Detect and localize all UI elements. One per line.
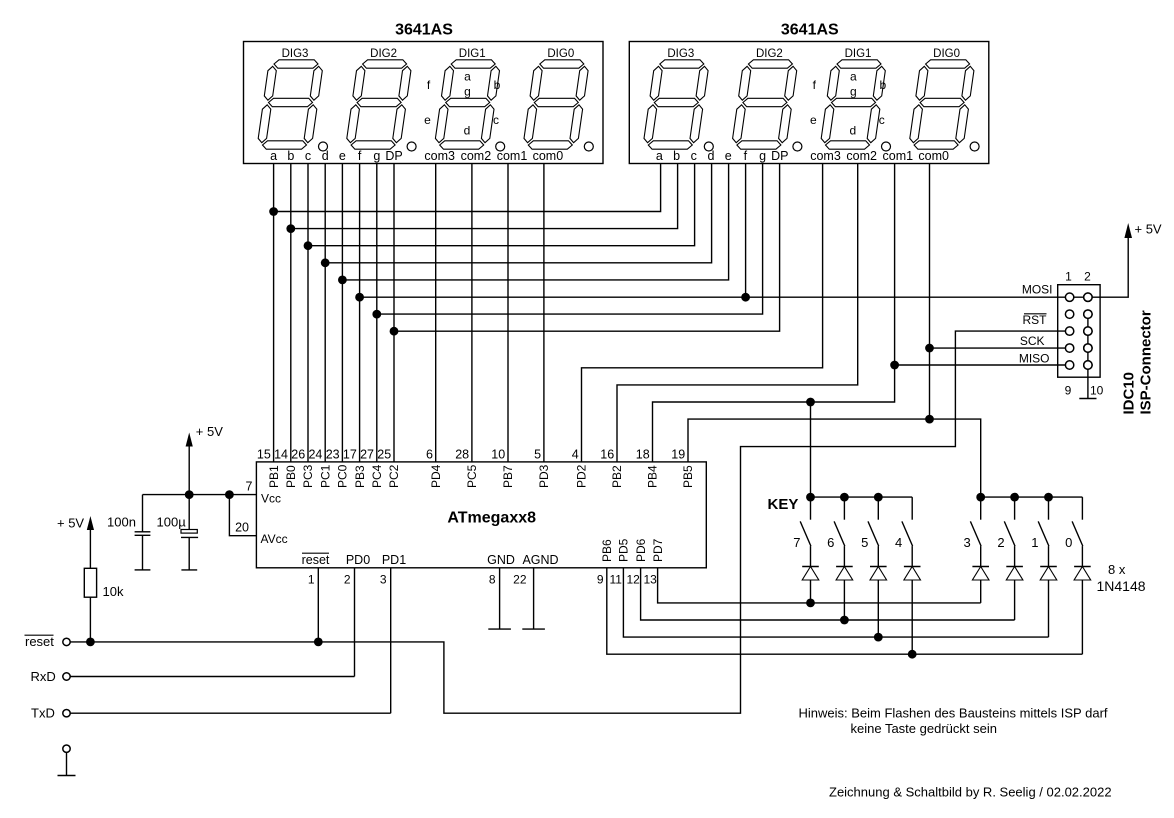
svg-text:3641AS: 3641AS bbox=[395, 22, 453, 39]
svg-text:8: 8 bbox=[489, 573, 496, 587]
ATmegaxx8 bottom port labels PB6 PD5 PD6 PD7 (rotated) bbox=[600, 538, 665, 562]
svg-text:100µ: 100µ bbox=[157, 515, 187, 530]
wire display1 com2 to ATmegaxx8 top pin bbox=[471, 164, 473, 462]
svg-text:20: 20 bbox=[235, 520, 249, 534]
wire ATmegaxx8 pin 2 (PD0) down to RxD line bbox=[354, 568, 356, 677]
svg-text:7: 7 bbox=[246, 479, 253, 493]
junction reset / 10k resistor bbox=[86, 638, 95, 647]
svg-text:3: 3 bbox=[963, 535, 970, 550]
switch key 3 bbox=[970, 497, 981, 566]
svg-text:Zeichnung & Schaltbild by R. S: Zeichnung & Schaltbild by R. Seelig / 02… bbox=[829, 785, 1112, 800]
svg-text:DIG1: DIG1 bbox=[845, 48, 872, 60]
wire PD7 (pin 13) to keys 7 and 3 bbox=[658, 568, 981, 603]
wire terminal ground bbox=[66, 752, 68, 775]
svg-text:3: 3 bbox=[380, 573, 387, 587]
svg-text:PC0: PC0 bbox=[336, 464, 350, 488]
svg-text:reset: reset bbox=[302, 553, 330, 567]
svg-text:TxD: TxD bbox=[31, 706, 55, 721]
svg-text:10k: 10k bbox=[103, 584, 124, 599]
ATmegaxx8 pin numbers 8 22 bbox=[489, 573, 527, 587]
wire display1 com0 to ATmegaxx8 top pin bbox=[543, 164, 545, 462]
wire segment bus e (display1 e to display2 e) bbox=[342, 164, 728, 280]
svg-text:g: g bbox=[759, 149, 766, 163]
wire segment bus a (display1 a to display2 a) bbox=[274, 164, 661, 212]
svg-text:DIG0: DIG0 bbox=[933, 48, 960, 60]
display U2 (left) digit DIG1 bbox=[435, 60, 499, 149]
wire display2 pin f stub bbox=[745, 164, 747, 298]
svg-text:0: 0 bbox=[1065, 535, 1072, 550]
display U2 (left) common pin labels com3 com2 com1 com0 bbox=[424, 149, 563, 163]
ground symbol at terminal bbox=[58, 775, 76, 777]
svg-text:f: f bbox=[744, 149, 748, 163]
diode D2 1N4148 bbox=[1006, 567, 1023, 621]
svg-text:com1: com1 bbox=[497, 149, 528, 163]
wire display2 com3 to ATmegaxx8 pin 4 (PD2) bbox=[582, 164, 823, 462]
wire display1 pin c to ATmegaxx8 top pin bbox=[307, 164, 309, 462]
svg-text:2: 2 bbox=[344, 573, 351, 587]
capacitor C2 100u (polarized) bbox=[188, 495, 190, 530]
svg-text:e: e bbox=[810, 113, 817, 127]
svg-text:PD7: PD7 bbox=[651, 538, 665, 562]
svg-text:c: c bbox=[305, 149, 311, 163]
svg-text:d: d bbox=[464, 124, 471, 138]
display U3 (right) digit DIG2 bbox=[733, 60, 797, 149]
ATmegaxx8 bottom pin numbers 1 2 3 bbox=[308, 573, 387, 587]
wire key rail 1 (keys 7-4) bbox=[811, 496, 913, 498]
svg-text:d: d bbox=[708, 149, 715, 163]
terminal reset circle bbox=[63, 638, 70, 645]
wire TxD to pin 3 bbox=[70, 712, 391, 714]
wire SCK (ISP pin 7 row) to display2 com0 bbox=[930, 347, 1070, 349]
svg-text:PC1: PC1 bbox=[318, 464, 332, 488]
svg-text:17: 17 bbox=[343, 447, 357, 461]
display U2 (left) DIG3 decimal point bbox=[319, 142, 328, 151]
svg-text:g: g bbox=[850, 85, 857, 99]
svg-text:DIG3: DIG3 bbox=[282, 48, 309, 60]
svg-text:GND: GND bbox=[487, 553, 515, 567]
connector J1 IDC10 box bbox=[1058, 285, 1100, 378]
display U3 (right) segment letters on DIG1 bbox=[810, 70, 887, 138]
svg-text:Hinweis: Beim Flashen des Baus: Hinweis: Beim Flashen des Bausteins mitt… bbox=[799, 706, 1108, 721]
svg-text:AVcc: AVcc bbox=[261, 532, 288, 546]
svg-text:24: 24 bbox=[308, 447, 322, 461]
svg-text:28: 28 bbox=[455, 447, 469, 461]
svg-text:ATmegaxx8: ATmegaxx8 bbox=[447, 509, 536, 526]
ISP pin circles bbox=[1065, 293, 1092, 369]
svg-text:DIG2: DIG2 bbox=[370, 48, 397, 60]
wire segment bus d (display1 d to display2 d) bbox=[325, 164, 711, 263]
svg-text:4: 4 bbox=[895, 535, 902, 550]
svg-text:PD1: PD1 bbox=[382, 553, 406, 567]
svg-text:g: g bbox=[464, 85, 471, 99]
svg-text:a: a bbox=[850, 70, 857, 84]
wire display1 pin g to ATmegaxx8 top pin bbox=[376, 164, 378, 462]
terminal TxD circle bbox=[63, 710, 70, 717]
junction com0 / SCK bbox=[925, 344, 934, 353]
display U3 (right) DIG2 decimal point bbox=[793, 142, 802, 151]
svg-text:2: 2 bbox=[1084, 270, 1091, 284]
svg-text:RST: RST bbox=[1023, 313, 1048, 327]
wire display1 pin DP to ATmegaxx8 top pin bbox=[393, 164, 395, 462]
wire AGND pin 22 to ground bbox=[533, 568, 535, 629]
svg-text:reset: reset bbox=[25, 634, 54, 649]
svg-text:25: 25 bbox=[377, 447, 391, 461]
wire key rail 1 feed (com1 net down to KEY rail) bbox=[810, 402, 812, 497]
svg-text:PD6: PD6 bbox=[634, 538, 648, 562]
svg-text:7: 7 bbox=[793, 535, 800, 550]
display U2 (left) DIG2 decimal point bbox=[407, 142, 416, 151]
wire display1 pin a to ATmegaxx8 top pin bbox=[273, 164, 275, 462]
junction reset / ATmegaxx8 pin 1 bbox=[314, 638, 323, 647]
display U3 (right) common pin labels com3 com2 com1 com0 bbox=[810, 149, 949, 163]
junction com1 / key rail 1 feed bbox=[806, 398, 815, 407]
svg-text:MISO: MISO bbox=[1019, 352, 1050, 366]
display U3 (right) DIG3 decimal point bbox=[704, 142, 713, 151]
+5V supply arrow at ISP bbox=[1124, 223, 1132, 238]
svg-text:f: f bbox=[358, 149, 362, 163]
svg-text:c: c bbox=[879, 113, 885, 127]
svg-text:23: 23 bbox=[326, 447, 340, 461]
wire display1 com3 to ATmegaxx8 top pin bbox=[435, 164, 437, 462]
diode D1 1N4148 bbox=[1040, 567, 1057, 638]
svg-text:DIG2: DIG2 bbox=[756, 48, 783, 60]
display U2 (left) segment pin labels a b c d e f g DP bbox=[270, 149, 403, 163]
svg-text:e: e bbox=[725, 149, 732, 163]
wire display2 com1 to ATmegaxx8 pin 18 (PB4) / MISO net bbox=[653, 164, 895, 462]
svg-text:PC2: PC2 bbox=[387, 464, 401, 488]
switch key 4 bbox=[902, 497, 913, 566]
switch key 6 bbox=[834, 497, 845, 566]
svg-text:DP: DP bbox=[385, 149, 402, 163]
svg-text:PB1: PB1 bbox=[267, 465, 281, 488]
junctions key rail 1 bbox=[806, 493, 883, 502]
wire PD6 (pin 12) to keys 6 and 2 bbox=[641, 568, 1015, 620]
svg-text:d: d bbox=[849, 124, 856, 138]
svg-text:27: 27 bbox=[360, 447, 374, 461]
svg-text:+ 5V: + 5V bbox=[57, 516, 84, 531]
svg-text:com3: com3 bbox=[424, 149, 455, 163]
ATmegaxx8 top port labels (rotated) bbox=[267, 464, 695, 488]
display U2 (left) digit DIG2 bbox=[347, 60, 411, 149]
display U2 (left) DIG0 decimal point bbox=[584, 142, 593, 151]
wire ISP right column chain to ground bbox=[1087, 314, 1089, 398]
display U2 (left) 3641AS box bbox=[244, 42, 604, 164]
display U2 (left) digit DIG0 bbox=[524, 60, 588, 149]
ground symbol below C1 bbox=[135, 569, 151, 571]
junction display1 f bbox=[355, 293, 364, 302]
svg-text:AGND: AGND bbox=[522, 553, 558, 567]
ATmegaxx8 top pin numbers bbox=[257, 447, 685, 461]
svg-text:a: a bbox=[464, 70, 471, 84]
svg-text:12: 12 bbox=[627, 573, 641, 587]
svg-text:com0: com0 bbox=[918, 149, 949, 163]
svg-text:16: 16 bbox=[600, 447, 614, 461]
svg-text:com2: com2 bbox=[846, 149, 877, 163]
svg-text:IDC10: IDC10 bbox=[1121, 372, 1138, 415]
diode D0 1N4148 bbox=[1074, 567, 1091, 655]
wire display2 com2 to ATmegaxx8 pin 16 (PB2) bbox=[617, 164, 858, 462]
svg-text:c: c bbox=[493, 113, 499, 127]
svg-text:22: 22 bbox=[513, 573, 527, 587]
terminal RxD circle bbox=[63, 673, 70, 680]
svg-text:PC5: PC5 bbox=[465, 464, 479, 488]
svg-text:1N4148: 1N4148 bbox=[1097, 578, 1146, 594]
display U3 (right) digit DIG1 bbox=[821, 60, 885, 149]
diode D4 1N4148 bbox=[904, 567, 921, 655]
wire segment bus b (display1 b to display2 b) bbox=[291, 164, 678, 229]
svg-text:18: 18 bbox=[636, 447, 650, 461]
svg-text:2: 2 bbox=[997, 535, 1004, 550]
svg-text:PB4: PB4 bbox=[646, 465, 660, 488]
display U3 (right) digit DIG3 bbox=[644, 60, 708, 149]
svg-text:SCK: SCK bbox=[1020, 334, 1045, 348]
svg-text:PD0: PD0 bbox=[346, 553, 370, 567]
ground symbol below ISP pin 10 bbox=[1079, 398, 1096, 400]
svg-text:RxD: RxD bbox=[31, 669, 56, 684]
svg-text:e: e bbox=[424, 113, 431, 127]
svg-text:PB3: PB3 bbox=[353, 465, 367, 488]
svg-text:5: 5 bbox=[861, 535, 868, 550]
svg-text:MOSI: MOSI bbox=[1022, 283, 1053, 297]
diode D7 1N4148 bbox=[802, 567, 819, 603]
display U3 (right) DIG1 decimal point bbox=[882, 142, 891, 151]
wire display1 pin b to ATmegaxx8 top pin bbox=[290, 164, 292, 462]
svg-text:c: c bbox=[691, 149, 697, 163]
svg-text:b: b bbox=[287, 149, 294, 163]
svg-text:KEY: KEY bbox=[768, 496, 799, 513]
svg-text:PB2: PB2 bbox=[610, 465, 624, 488]
diode D3 1N4148 bbox=[972, 567, 989, 603]
display U3 (right) 3641AS box bbox=[629, 42, 989, 164]
svg-text:com0: com0 bbox=[533, 149, 564, 163]
svg-text:14: 14 bbox=[274, 447, 288, 461]
svg-text:10: 10 bbox=[491, 447, 505, 461]
svg-text:DP: DP bbox=[771, 149, 788, 163]
+5V supply arrow at 10k resistor bbox=[87, 516, 94, 530]
svg-text:11: 11 bbox=[610, 573, 623, 587]
svg-text:3641AS: 3641AS bbox=[781, 22, 839, 39]
resistor R1 10k bbox=[84, 568, 96, 597]
display U3 (right) DIG0 decimal point bbox=[970, 142, 979, 151]
wire segment bus g (display1 g to display2 g) bbox=[377, 164, 763, 315]
wire segment bus c (display1 c to display2 c) bbox=[308, 164, 695, 246]
svg-text:6: 6 bbox=[426, 447, 433, 461]
connector label IDC10 ISP-Connector (rotated) bbox=[1121, 310, 1155, 414]
junction com1 / MISO bbox=[890, 361, 899, 370]
switch key 0 bbox=[1072, 497, 1083, 566]
display U3 (right) digit DIG0 bbox=[910, 60, 974, 149]
svg-text:PD3: PD3 bbox=[537, 464, 551, 488]
svg-text:19: 19 bbox=[671, 447, 685, 461]
wire MISO (ISP pin 9 row) to display2 com1 bbox=[895, 364, 1070, 366]
switch key 2 bbox=[1004, 497, 1015, 566]
ground symbol AGND bbox=[522, 628, 545, 630]
ground symbol below C2 bbox=[181, 569, 197, 571]
ISP pin numbers 1 2 9 10 bbox=[1065, 270, 1104, 398]
wire RxD to pin 2 bbox=[70, 676, 354, 678]
svg-text:PD4: PD4 bbox=[429, 464, 443, 488]
svg-text:1: 1 bbox=[308, 573, 315, 587]
svg-text:DIG3: DIG3 bbox=[667, 48, 694, 60]
svg-text:ISP-Connector: ISP-Connector bbox=[1138, 310, 1155, 414]
ground symbol GND bbox=[488, 628, 511, 630]
+5V supply arrow at Vcc bbox=[186, 433, 193, 447]
svg-text:Vcc: Vcc bbox=[261, 491, 281, 505]
diode D5 1N4148 bbox=[870, 567, 887, 638]
svg-text:4: 4 bbox=[572, 447, 579, 461]
svg-text:1: 1 bbox=[1065, 270, 1072, 284]
svg-text:26: 26 bbox=[291, 447, 305, 461]
wire ATmegaxx8 pin 1 (reset) down to reset line bbox=[317, 568, 319, 642]
svg-text:+ 5V: + 5V bbox=[1135, 222, 1162, 237]
wire R1 to reset line bbox=[89, 597, 91, 642]
svg-text:DIG0: DIG0 bbox=[547, 48, 574, 60]
wire GND pin 8 to ground bbox=[499, 568, 501, 629]
wire display1 com1 to ATmegaxx8 top pin bbox=[507, 164, 509, 462]
wire segment bus f / MOSI net (display1 f - display2 f - ISP pin1 - +5V corner) bbox=[360, 238, 1129, 297]
svg-text:13: 13 bbox=[644, 573, 658, 587]
svg-text:8 x: 8 x bbox=[1108, 562, 1126, 577]
svg-text:e: e bbox=[339, 149, 346, 163]
wire segment bus DP (display1 DP to display2 DP) bbox=[394, 164, 780, 332]
switch key 5 bbox=[868, 497, 879, 566]
wire key rail 2 (keys 3-0) bbox=[981, 496, 1083, 498]
svg-text:15: 15 bbox=[257, 447, 271, 461]
svg-text:PD5: PD5 bbox=[617, 538, 631, 562]
switch key 7 bbox=[800, 497, 811, 566]
wire display1 pin e to ATmegaxx8 top pin bbox=[341, 164, 343, 462]
wire PD5 (pin 11) to keys 5 and 1 bbox=[623, 568, 1048, 637]
wire ATmegaxx8 pin 3 (PD1) down to TxD line bbox=[390, 568, 392, 713]
svg-text:b: b bbox=[673, 149, 680, 163]
svg-text:+ 5V: + 5V bbox=[196, 424, 223, 439]
svg-text:6: 6 bbox=[827, 535, 834, 550]
junction +5V / 100u capacitor bbox=[185, 490, 194, 499]
svg-text:10: 10 bbox=[1090, 384, 1104, 398]
svg-text:PC4: PC4 bbox=[370, 464, 384, 488]
svg-text:com3: com3 bbox=[810, 149, 841, 163]
wire display2 com0 vertical / SCK net bbox=[929, 164, 931, 420]
svg-text:com1: com1 bbox=[883, 149, 914, 163]
display U3 (right) segment pin labels a b c d e f g DP bbox=[656, 149, 789, 163]
svg-text:b: b bbox=[879, 78, 886, 92]
display U2 (left) segment letters on DIG1 bbox=[424, 70, 501, 138]
junction com0 / pin19 line bbox=[925, 415, 934, 424]
svg-text:9: 9 bbox=[597, 573, 604, 587]
wire +5V rail to Vcc (pin 7) bbox=[143, 494, 257, 496]
svg-text:PB6: PB6 bbox=[600, 539, 614, 562]
junction display2 f / MOSI bbox=[741, 293, 750, 302]
terminal ground circle bbox=[63, 745, 70, 752]
svg-text:DIG1: DIG1 bbox=[459, 48, 486, 60]
svg-text:PD2: PD2 bbox=[575, 464, 589, 488]
junction +5V rail / AVcc branch bbox=[225, 490, 234, 499]
wire PB6 (pin 9) to keys 4 and 0 bbox=[607, 568, 1083, 654]
display U2 (left) DIG1 decimal point bbox=[496, 142, 505, 151]
capacitor C1 100n bbox=[142, 495, 144, 532]
IC U1 ATmegaxx8 body bbox=[256, 462, 706, 568]
svg-text:g: g bbox=[373, 149, 380, 163]
svg-text:9: 9 bbox=[1065, 384, 1072, 398]
svg-text:PC3: PC3 bbox=[301, 464, 315, 488]
wire reset net (reset terminal - pin1 - around bottom - ISP RST pin 5) bbox=[67, 331, 1070, 713]
svg-text:d: d bbox=[322, 149, 329, 163]
svg-text:a: a bbox=[656, 149, 663, 163]
svg-text:com2: com2 bbox=[461, 149, 492, 163]
diode D6 1N4148 bbox=[836, 567, 853, 621]
ATmegaxx8 bottom pin numbers 9 11 12 13 bbox=[597, 573, 657, 587]
svg-text:keine Taste gedrückt sein: keine Taste gedrückt sein bbox=[851, 721, 997, 736]
display U2 (left) digit DIG3 bbox=[258, 60, 322, 149]
svg-text:b: b bbox=[494, 78, 501, 92]
svg-text:PB7: PB7 bbox=[501, 465, 515, 488]
wire display1 pin d to ATmegaxx8 top pin bbox=[324, 164, 326, 462]
svg-text:5: 5 bbox=[534, 447, 541, 461]
svg-text:1: 1 bbox=[1031, 535, 1038, 550]
svg-text:PB0: PB0 bbox=[284, 465, 298, 488]
wire ATmegaxx8 pin 19 (PB5) to key rail 2 feed bbox=[688, 419, 981, 497]
wire display1 pin f to ATmegaxx8 top pin bbox=[359, 164, 361, 462]
switch key 1 bbox=[1038, 497, 1049, 566]
svg-text:a: a bbox=[270, 149, 277, 163]
junctions key rail 2 bbox=[976, 493, 1053, 502]
svg-text:PB5: PB5 bbox=[681, 465, 695, 488]
wire AVcc branch (pin 20) bbox=[229, 495, 256, 536]
svg-text:100n: 100n bbox=[107, 515, 136, 530]
